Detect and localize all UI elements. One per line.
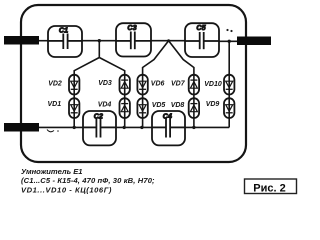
svg-text:C2: C2 [94,112,103,121]
diode VD6 [137,75,147,95]
wire top rail: C1 to C3 [82,40,116,42]
svg-text:C4: C4 [163,111,172,120]
svg-text:VD8: VD8 [171,102,185,109]
diode VD5 [137,98,147,118]
wire fan leg to VD6 [143,41,169,75]
wire chain1 vertical [73,75,75,127]
capacitor C2 [83,111,116,145]
svg-text:VD6: VD6 [151,81,165,88]
wire chain3 vertical [142,75,144,127]
wire top rail: C5 to right bar [219,40,237,42]
svg-text:VD4: VD4 [98,101,112,108]
svg-text:VD7: VD7 [171,81,186,88]
figure label box Рис. 2 [245,179,297,194]
artifact specks near right terminal [226,29,228,31]
node chain2-bottom junction [123,126,126,129]
diode VD1 [69,98,79,118]
diode VD10 [224,75,234,95]
wire bottom rail: C2 to C4 [116,126,152,128]
svg-text:VD3: VD3 [98,80,112,87]
wire fan leg to VD2 [74,58,99,76]
diode VD7 [189,75,199,95]
node chain1-bottom junction [73,126,76,129]
wire bottom rail: bar to C2 [39,126,83,128]
svg-text:VD5: VD5 [152,102,166,109]
diode VD4 [120,98,130,118]
svg-text:VD10: VD10 [204,81,222,88]
capacitor C5 [185,23,219,57]
diode VD8 [189,98,199,118]
wire chain2 vertical [124,75,126,127]
svg-text:C3: C3 [127,23,136,32]
node A junction C1-C3 [98,39,101,42]
artifact arc under input wire [47,130,54,132]
diode VD2 [69,75,79,95]
capacitor C3 [116,23,151,56]
node C junction C5-output [228,40,231,43]
svg-text:VD1...VD10 - КЦ(106Г): VD1...VD10 - КЦ(106Г) [21,185,112,194]
svg-text:Умножитель Е1: Умножитель Е1 [21,167,83,176]
wire chain5 vertical [228,41,230,127]
node chain4-bottom junction [192,126,195,129]
node B junction C3-C5 [167,39,170,42]
node chain3-bottom junction [140,126,143,129]
svg-text:(С1...С5 - К15-4, 470 пФ, 30 к: (С1...С5 - К15-4, 470 пФ, 30 кВ, Н70; [21,176,155,185]
wire fan leg to VD7 [169,41,194,75]
diode VD9 [224,98,234,118]
capacitor C4 [152,111,185,145]
wire fan stub node A [98,41,100,58]
terminal bottom-left [4,123,39,132]
diode VD3 [120,75,130,95]
wire fan leg to VD3 [99,58,124,76]
wire top rail: bar to C1 [39,40,48,42]
svg-text:VD2: VD2 [48,81,62,88]
multiplier block outline E1 [21,5,246,162]
svg-text:C1: C1 [59,25,68,34]
wire bottom rail: C4 to chain5 corner [185,126,229,128]
svg-text:C5: C5 [196,23,206,32]
svg-text:Рис. 2: Рис. 2 [253,183,285,195]
terminal right [237,37,271,46]
svg-text:VD9: VD9 [206,101,220,108]
wire chain4 vertical [193,75,195,127]
terminal top-left [4,36,39,45]
capacitor C1 [48,26,82,57]
svg-text:VD1: VD1 [47,101,61,108]
wire top rail: C3 to C5 [151,40,185,42]
